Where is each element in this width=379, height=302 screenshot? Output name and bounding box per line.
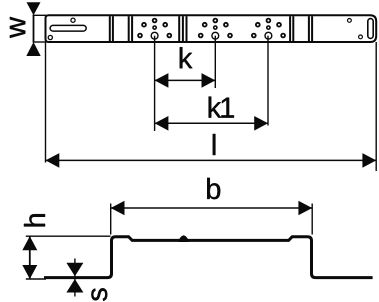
dimension h arrow bottom (22, 265, 37, 279)
bend line pair E (right hat bend) (309, 16, 312, 41)
label l (213, 134, 216, 155)
hole pattern 1 (138, 19, 171, 39)
bend line triple C (center bead) (179, 16, 186, 41)
dimension s arrow top (66, 263, 83, 277)
dimension w arrow bottom (26, 42, 40, 56)
dimension k extension line right (214, 36, 216, 88)
dimension k1 line (155, 122, 268, 124)
dimension l arrow right (362, 153, 376, 168)
label h (24, 214, 45, 226)
dimension h extension line top (26, 235, 111, 237)
dimension k1 extension line right (267, 36, 269, 126)
bend line pair D (right joggle) (290, 16, 293, 41)
dimension l arrow left (46, 153, 60, 168)
dimension h line (29, 236, 31, 279)
hole (left end, bottom small circle) (48, 35, 52, 39)
dimension b arrow left (111, 201, 125, 216)
label s (91, 288, 107, 301)
hole (right end, bottom small circle) (359, 35, 363, 39)
bead bump on web (178, 235, 189, 242)
dimension b extension line left (110, 204, 112, 235)
label k1 (209, 97, 234, 118)
hole pattern 2 (199, 19, 232, 39)
dimension l line (46, 159, 377, 161)
hole pattern 3 (252, 19, 285, 39)
dimension w extension lines (33, 15, 46, 42)
label w (10, 17, 25, 38)
slot (left end, horizontal) (50, 25, 86, 31)
dimension k1 arrow left (155, 116, 169, 131)
plate outline (top view) (46, 15, 377, 42)
dimension k line (155, 79, 216, 81)
label b (207, 178, 220, 199)
dimension l extension line right (375, 42, 377, 171)
dimension b extension line right (311, 204, 313, 235)
hole (left end, top small circle) (71, 18, 75, 22)
dimension k arrow left (155, 73, 169, 88)
dimension s arrow bottom (66, 279, 83, 293)
dimension s line (74, 259, 76, 297)
dimension h arrow top (22, 236, 37, 250)
dimension k1 arrow right (254, 116, 268, 131)
bend line pair B (left joggle) (129, 16, 132, 41)
dimension l extension line left (45, 42, 47, 163)
label k (180, 47, 193, 68)
dimension k extension line left (154, 36, 156, 131)
hole (right end, top small circle) (348, 19, 352, 23)
dimension w line (33, 15, 35, 42)
dimension b line (111, 207, 313, 209)
dimension k arrow right (202, 73, 216, 88)
dimension w arrow top (27, 2, 41, 15)
dimension h extension line bottom (26, 278, 46, 280)
hat profile (bottom view cross-section) (44, 237, 373, 278)
dimension b arrow right (298, 201, 312, 216)
slot (right end, vertical) (368, 19, 373, 39)
bend line pair A (left hat bend) (110, 16, 113, 41)
